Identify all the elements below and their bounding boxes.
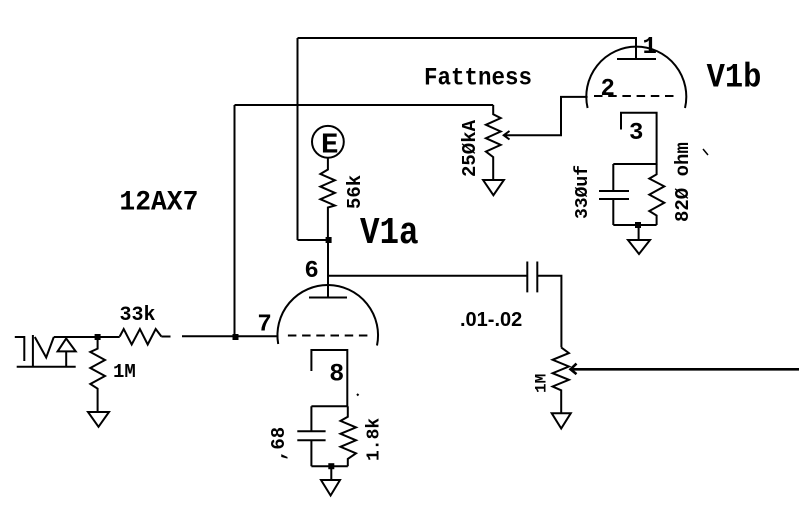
stray mark tick xyxy=(703,149,708,155)
wire B horizontal to Fattness pot xyxy=(235,104,494,106)
node grid junction xyxy=(233,334,239,340)
svg-text:56k: 56k xyxy=(344,175,366,209)
svg-text:,68: ,68 xyxy=(268,427,290,461)
wire A horizontal to V1b plate xyxy=(298,38,637,59)
node cathode RC junction xyxy=(328,463,334,469)
ground (input) xyxy=(88,412,109,427)
ground (V1a cathode) xyxy=(321,480,340,496)
svg-text:E: E xyxy=(321,128,338,161)
wire cap to 1M pot xyxy=(537,276,561,348)
node V1b cathode RC junction xyxy=(635,222,641,228)
resistor R4 56k xyxy=(320,159,335,241)
resistor R5 820 ohm xyxy=(649,164,664,225)
wire vertical V1 (plate node to top wire A) xyxy=(297,38,299,240)
svg-text:3: 3 xyxy=(629,120,643,147)
capacitor C1 ,68 xyxy=(297,406,325,466)
ground (V1b cathode) xyxy=(628,240,650,254)
svg-text:2: 2 xyxy=(601,76,615,103)
cathode RC bottom wire V1b xyxy=(613,224,656,226)
svg-text:25ØkA: 25ØkA xyxy=(459,119,481,177)
ground (1M pot) xyxy=(552,413,571,428)
input jack J1 xyxy=(15,335,76,367)
node input junction xyxy=(95,334,101,340)
wiper arrow Fattness xyxy=(504,97,588,140)
tube V1a cathode (pin 8) xyxy=(311,350,347,406)
tube V1a envelope xyxy=(277,285,378,345)
potentiometer 1M xyxy=(553,347,569,413)
svg-text:6: 6 xyxy=(304,258,318,285)
wire to ground xyxy=(330,466,332,479)
wire vertical V2 (grid node to upper wire B) xyxy=(234,105,236,337)
resistor R1 1M (input) xyxy=(90,337,105,412)
svg-text:1: 1 xyxy=(643,34,657,61)
svg-text:33Øuf: 33Øuf xyxy=(573,165,593,219)
wire jack to grid node xyxy=(54,336,120,338)
svg-text:8: 8 xyxy=(329,359,344,388)
svg-text:33k: 33k xyxy=(120,304,156,327)
resistor R2 33k xyxy=(120,329,162,345)
wire plate node horizontal xyxy=(298,239,329,241)
svg-text:82Ø ohm: 82Ø ohm xyxy=(672,142,694,222)
wire plate to coupling cap xyxy=(328,275,527,277)
wire 33k to pin7 (with gap) xyxy=(161,335,277,337)
svg-text:.01-.02: .01-.02 xyxy=(460,309,522,331)
svg-text:1.8k: 1.8k xyxy=(365,418,385,461)
stray mark dot xyxy=(357,394,359,396)
wiper arrow 1M pot xyxy=(571,364,799,375)
resistor R3 1.8k xyxy=(341,406,357,466)
svg-text:V1a: V1a xyxy=(360,212,419,255)
cathode RC top wire xyxy=(311,405,347,407)
svg-text:Fattness: Fattness xyxy=(424,64,532,92)
capacitor C2 330uf xyxy=(599,164,629,225)
svg-text:12AX7: 12AX7 xyxy=(119,187,198,218)
svg-text:1M: 1M xyxy=(113,361,136,383)
cathode RC top wire V1b xyxy=(613,163,656,165)
ground (Fattness pot) xyxy=(483,180,504,195)
svg-text:7: 7 xyxy=(257,312,271,339)
terminal circle E xyxy=(312,126,344,158)
tube V1a grid (dashed) xyxy=(288,335,372,337)
tube V1b plate (pin 1) xyxy=(617,58,656,60)
svg-text:V1b: V1b xyxy=(707,59,762,98)
tube V1b envelope xyxy=(586,47,686,108)
tube V1b grid (dashed) xyxy=(594,95,678,97)
cathode RC bottom wire xyxy=(311,465,347,467)
wire to ground V1b xyxy=(638,225,640,240)
node plate junction xyxy=(326,237,332,243)
tube V1b cathode (pin 3) xyxy=(621,113,657,165)
capacitor C3 coupling xyxy=(527,262,537,293)
svg-text:1M: 1M xyxy=(533,374,551,393)
potentiometer Fattness 250kA xyxy=(486,105,501,180)
tube V1a plate (pin 6) xyxy=(309,240,347,298)
